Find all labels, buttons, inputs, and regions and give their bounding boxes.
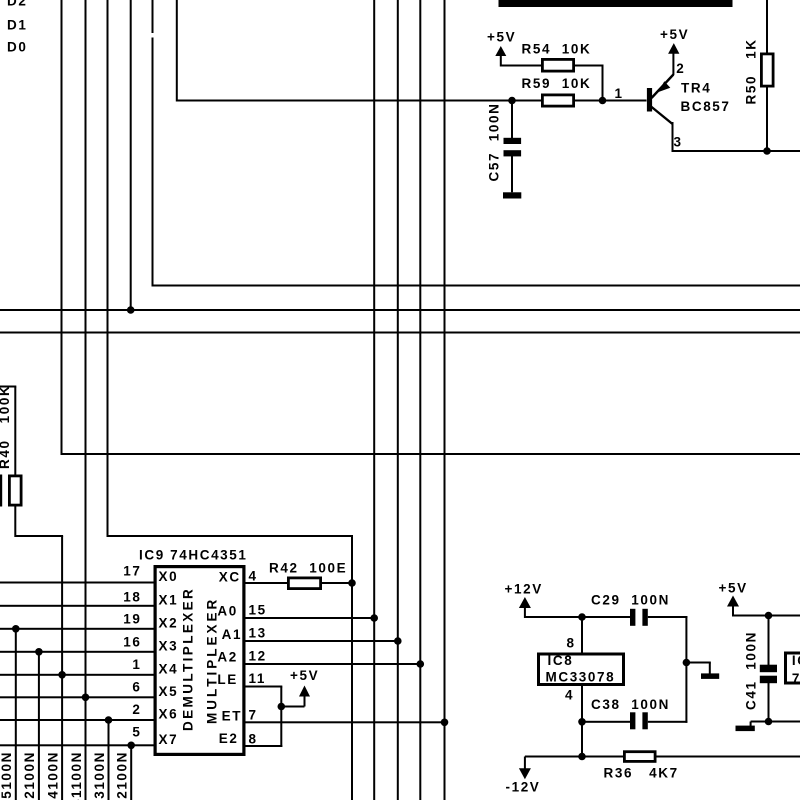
svg-text:7: 7: [792, 671, 800, 686]
svg-text:+5V: +5V: [719, 581, 748, 596]
svg-text:R50 1K: R50 1K: [744, 38, 759, 104]
svg-text:E2: E2: [219, 731, 239, 746]
svg-text:5: 5: [132, 725, 141, 740]
svg-text:+5V: +5V: [487, 30, 516, 45]
svg-text:C45100N: C45100N: [0, 751, 14, 800]
svg-text:IC8: IC8: [548, 653, 574, 668]
svg-text:C42100N: C42100N: [22, 751, 37, 800]
svg-text:LE: LE: [217, 672, 237, 687]
svg-text:7: 7: [249, 707, 258, 722]
svg-text:DEMULTIPLEXER: DEMULTIPLEXER: [181, 587, 196, 731]
svg-text:C41100N: C41100N: [69, 751, 84, 800]
svg-text:D1: D1: [7, 18, 27, 33]
svg-text:16: 16: [123, 635, 141, 650]
svg-text:3: 3: [674, 135, 683, 150]
svg-text:6: 6: [132, 680, 141, 695]
svg-text:A1: A1: [222, 627, 242, 642]
svg-text:C38 100N: C38 100N: [591, 697, 670, 712]
svg-text:2: 2: [676, 61, 685, 76]
svg-text:X0: X0: [159, 569, 179, 584]
svg-text:A2: A2: [217, 650, 237, 665]
svg-text:17: 17: [123, 564, 141, 579]
svg-text:X7: X7: [159, 732, 179, 747]
svg-text:+5V: +5V: [660, 27, 689, 42]
svg-text:12: 12: [249, 649, 267, 664]
svg-text:R36 4K7: R36 4K7: [604, 766, 679, 781]
svg-text:1: 1: [132, 657, 141, 672]
svg-text:R40 100K: R40 100K: [0, 385, 12, 469]
svg-text:C29 100N: C29 100N: [591, 593, 670, 608]
svg-text:X1: X1: [159, 592, 179, 607]
svg-text:4: 4: [565, 688, 574, 703]
svg-text:R42 100E: R42 100E: [269, 561, 347, 576]
svg-text:D0: D0: [7, 40, 27, 55]
svg-text:C57 100N: C57 100N: [487, 103, 502, 182]
svg-text:X6: X6: [159, 707, 179, 722]
svg-text:R54 10K: R54 10K: [522, 42, 592, 57]
svg-text:11: 11: [249, 671, 266, 686]
svg-text:18: 18: [123, 590, 141, 605]
svg-text:X5: X5: [159, 684, 179, 699]
svg-text:TR4: TR4: [681, 81, 711, 96]
svg-text:1: 1: [615, 86, 624, 101]
svg-text:IC: IC: [792, 653, 800, 668]
svg-text:X3: X3: [159, 638, 179, 653]
svg-text:4: 4: [249, 569, 258, 584]
svg-text:A0: A0: [217, 604, 237, 619]
svg-text:19: 19: [123, 612, 141, 627]
svg-text:C42100N: C42100N: [115, 751, 130, 800]
svg-text:C43100N: C43100N: [92, 751, 107, 800]
svg-text:13: 13: [249, 626, 267, 641]
svg-text:+12V: +12V: [505, 582, 543, 597]
svg-text:2: 2: [132, 702, 141, 717]
svg-text:15: 15: [249, 603, 267, 618]
svg-text:MC33078: MC33078: [546, 670, 616, 685]
svg-text:8: 8: [249, 732, 258, 747]
svg-text:8: 8: [567, 636, 576, 651]
svg-text:BC857: BC857: [681, 99, 731, 114]
svg-text:+5V: +5V: [290, 668, 319, 683]
svg-text:-12V: -12V: [506, 780, 541, 795]
svg-text:C44100N: C44100N: [45, 751, 60, 800]
svg-text:IC9 74HC4351: IC9 74HC4351: [139, 548, 248, 563]
svg-text:X4: X4: [159, 661, 179, 676]
svg-text:XC: XC: [219, 570, 241, 585]
svg-text:R59 10K: R59 10K: [522, 76, 592, 91]
svg-text:C41 100N: C41 100N: [743, 631, 758, 710]
svg-text:ET: ET: [222, 709, 242, 724]
svg-text:X2: X2: [159, 615, 179, 630]
svg-text:D2: D2: [7, 0, 27, 9]
